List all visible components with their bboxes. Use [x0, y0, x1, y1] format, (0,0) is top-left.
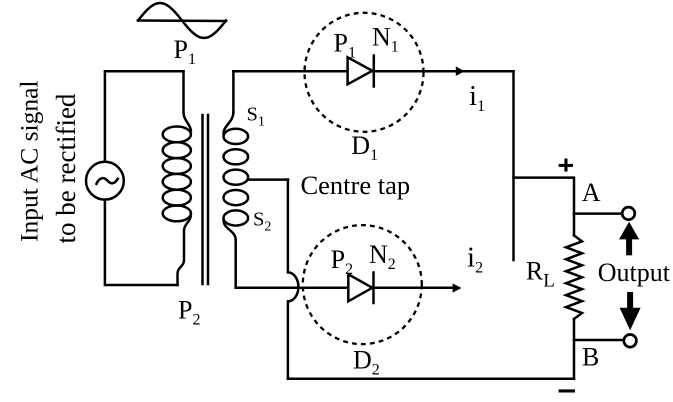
wire secondary top	[232, 71, 235, 112]
svg-text:RL: RL	[526, 256, 555, 291]
svg-text:i2: i2	[467, 242, 483, 277]
current arrow i2	[453, 283, 462, 292]
centre tap wire	[248, 178, 288, 181]
current arrow i1	[456, 66, 465, 76]
wire top rail to D1 and right	[233, 70, 513, 73]
diode D1 cathode bar	[373, 56, 376, 87]
dotted circle D1	[305, 13, 424, 132]
transformer secondary winding loops	[224, 129, 249, 226]
svg-text:N2: N2	[369, 240, 396, 273]
wire right vertical from top rail	[512, 71, 515, 260]
diode D2 cathode bar	[372, 273, 375, 304]
sine wave source symbol	[138, 3, 226, 38]
terminal A	[622, 207, 635, 220]
AC source V1	[86, 162, 124, 200]
svg-text:S2: S2	[253, 209, 271, 235]
transformer core	[203, 115, 209, 284]
minus sign	[559, 389, 575, 392]
wire secondary bottom to D2	[236, 287, 455, 290]
svg-text:S1: S1	[247, 104, 265, 130]
svg-text:i1: i1	[469, 80, 485, 115]
svg-text:Input AC signal: Input AC signal	[15, 80, 44, 242]
transformer primary winding exit wire	[178, 215, 191, 286]
diode D1 triangle	[348, 57, 373, 84]
terminal B	[624, 335, 637, 348]
svg-text:N1: N1	[372, 23, 399, 56]
wire node A branch	[574, 212, 622, 215]
output arrow down	[620, 292, 641, 330]
resistor RL	[566, 235, 582, 319]
wire primary top	[105, 71, 184, 162]
transformer primary winding loops	[163, 126, 191, 221]
dotted circle D2	[303, 225, 422, 344]
wire plus branch	[514, 178, 575, 236]
wire primary bottom	[105, 200, 178, 285]
svg-text:D2: D2	[353, 346, 380, 379]
wire node B branch	[574, 339, 624, 342]
svg-text:Centre tap: Centre tap	[301, 170, 411, 200]
diode D2 triangle	[348, 274, 372, 301]
wire resistor bottom to B	[573, 319, 576, 379]
output arrow up	[619, 222, 639, 256]
svg-text:P1: P1	[334, 29, 356, 62]
transformer primary winding entry wire	[184, 71, 191, 131]
svg-text:P2: P2	[178, 296, 200, 329]
svg-text:A: A	[582, 178, 601, 207]
svg-text:B: B	[582, 343, 599, 372]
svg-text:P1: P1	[174, 35, 196, 68]
svg-text:Output: Output	[598, 258, 671, 287]
svg-text:D1: D1	[351, 131, 378, 164]
AC source tilde	[97, 178, 118, 184]
svg-text:P2: P2	[331, 245, 353, 278]
transformer secondary winding entry wire	[224, 112, 234, 133]
plus sign	[559, 159, 573, 172]
transformer secondary winding exit wire	[224, 221, 236, 288]
svg-text:to be rectified: to be rectified	[51, 93, 81, 243]
centre tap vertical wire with hop over D2 wire	[288, 180, 299, 379]
wire bottom rail	[288, 378, 574, 381]
